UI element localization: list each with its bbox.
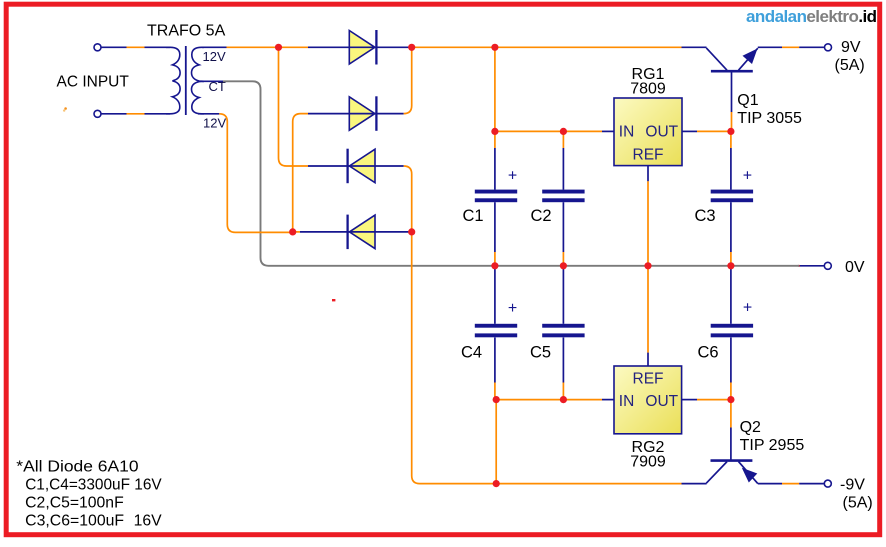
wire C2 column top (562, 131, 564, 148)
svg-text:OUT: OUT (645, 123, 678, 140)
wire C2 bottom to 0V (562, 202, 564, 252)
svg-text:(5A): (5A) (835, 57, 865, 74)
junction node B (289, 228, 296, 235)
svg-text:C1: C1 (463, 207, 484, 225)
svg-text:TIP 2955: TIP 2955 (740, 437, 805, 454)
transformer T1 core (185, 46, 187, 115)
svg-text:TRAFO 5A: TRAFO 5A (147, 23, 226, 40)
svg-text:Q1: Q1 (737, 92, 758, 109)
junction 0V REF (644, 262, 651, 269)
svg-text:andalanelektro.id: andalanelektro.id (746, 7, 877, 26)
wire node F to C1 top (494, 131, 496, 148)
wire 0V to C4 top (494, 266, 496, 324)
wire secondary bottom 12V down-right to node B (198, 113, 219, 115)
orange speck artifact (64, 107, 67, 110)
svg-text:0V: 0V (845, 259, 865, 276)
wire C6 bottom to node K (730, 338, 732, 383)
terminal -9V (824, 480, 831, 487)
capacitor C5 (542, 324, 584, 338)
wire 0V to C5 top (562, 266, 564, 324)
svg-text:(5A): (5A) (843, 495, 873, 512)
svg-text:+: + (743, 300, 752, 317)
diode D4 (348, 215, 375, 250)
junction 0V C2 (560, 262, 567, 269)
wire RG2 OUT to node K (682, 399, 697, 401)
junction 0V C3 (727, 262, 734, 269)
diode D2 (349, 96, 376, 131)
svg-text:7909: 7909 (630, 454, 666, 471)
diode D3 (348, 149, 375, 184)
wire AC bottom (101, 113, 170, 115)
svg-text:-9V: -9V (840, 477, 865, 494)
wire node A down to diode D3 cathode (279, 47, 309, 166)
svg-text:7809: 7809 (630, 81, 666, 98)
wire D3 anode down to node D (375, 165, 404, 167)
junction node J (727, 128, 734, 135)
regulator RG1 7809 (614, 98, 682, 166)
svg-text:OUT: OUT (645, 393, 678, 410)
wire node J to C3 top (730, 131, 732, 148)
junction C2 top (560, 128, 567, 135)
svg-text:C3,C6=100uF16V: C3,C6=100uF16V (25, 512, 162, 529)
junction node D (408, 228, 415, 235)
terminal AC bottom (94, 110, 101, 117)
svg-text:C3: C3 (695, 207, 716, 225)
wire D1 cathode to node C (378, 46, 412, 48)
wire negative rectified down to bottom rail (412, 232, 682, 484)
svg-text:12V: 12V (203, 116, 226, 131)
wire 0V to C6 top (730, 266, 732, 324)
wire Q1 base down to node J (731, 73, 733, 113)
junction C5 bottom (560, 396, 567, 403)
svg-text:C2: C2 (531, 207, 552, 225)
junction 0V C1 (491, 262, 498, 269)
terminal 9V (825, 44, 832, 51)
svg-text:REF: REF (633, 146, 664, 163)
svg-text:+: + (508, 300, 517, 317)
transformer T1 secondary winding top half (192, 47, 205, 81)
wire Q2 emitter to -9V terminal (758, 483, 782, 485)
terminal AC top (94, 44, 101, 51)
svg-text:C2,C5=100nF: C2,C5=100nF (25, 494, 124, 511)
wire C4 bottom to node G (494, 338, 496, 383)
wire D2 cathode up to node C (378, 113, 404, 115)
svg-text:*All Diode 6A10: *All Diode 6A10 (16, 459, 139, 476)
wire secondary top to node A (202, 46, 349, 48)
transformer T1 secondary winding bottom half (192, 81, 205, 114)
wire Q1 emitter to 9V terminal (758, 46, 782, 48)
junction node G (493, 396, 500, 403)
wire node E down from top rail to node F (494, 47, 496, 131)
wire RG1 REF down to 0V and RG2 REF (647, 166, 649, 182)
wire node B to diode D4 cathode (293, 231, 300, 233)
svg-text:C5: C5 (530, 344, 551, 362)
wire C5 bottom to node H row (562, 338, 564, 383)
junction node A (275, 44, 282, 51)
junction bottom rail (493, 480, 500, 487)
svg-text:AC INPUT: AC INPUT (57, 74, 130, 91)
terminal 0V (824, 262, 831, 269)
wire positive rail top (412, 46, 682, 48)
svg-text:C6: C6 (698, 344, 719, 362)
svg-text:12V: 12V (203, 49, 226, 64)
wire CT to 0V rail (gray) (799, 265, 824, 267)
wire D4 anode to node D (375, 231, 412, 233)
red speck artifact (332, 299, 335, 301)
transformer T1 primary winding (166, 47, 180, 114)
capacitor C3 (711, 190, 753, 203)
transistor Q2 TIP2955 (706, 461, 758, 484)
svg-text:+: + (743, 167, 752, 184)
wire C1 bottom to 0V rail (494, 202, 496, 252)
junction node C (408, 44, 415, 51)
svg-text:IN: IN (619, 123, 635, 140)
capacitor C4 (475, 324, 517, 338)
wire node G down to bottom rail (495, 400, 497, 484)
svg-text:REF: REF (633, 371, 664, 388)
wire C3 bottom to 0V (730, 202, 732, 252)
svg-text:C1,C4=3300uF 16V: C1,C4=3300uF 16V (25, 477, 162, 494)
svg-text:9V: 9V (841, 39, 861, 56)
transistor Q1 TIP3055 (706, 48, 758, 71)
wire node K down to Q2 base (730, 400, 732, 428)
svg-text:Q2: Q2 (740, 419, 761, 436)
capacitor C1 (475, 190, 517, 203)
svg-text:+: + (508, 167, 517, 184)
wire AC top (101, 46, 170, 48)
svg-text:C4: C4 (461, 344, 482, 362)
wire node B up to diode D2 anode (293, 114, 308, 232)
wire RG1 OUT to node J (682, 130, 697, 132)
capacitor C6 (711, 324, 753, 338)
diode D1 (349, 30, 376, 65)
wire row -unreg node G to RG2 IN (496, 399, 602, 401)
junction node E (491, 44, 498, 51)
junction node K (727, 396, 734, 403)
svg-text:TIP 3055: TIP 3055 (737, 110, 802, 127)
wire row130 node F to RG1 IN (495, 130, 602, 132)
regulator RG2 7909 (614, 366, 682, 434)
svg-text:IN: IN (619, 393, 635, 410)
junction node F (491, 128, 498, 135)
capacitor C2 (542, 190, 584, 203)
